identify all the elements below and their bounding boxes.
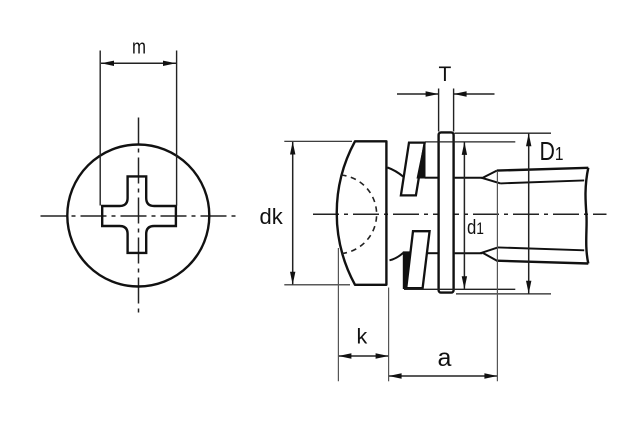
thread crest line top (497, 168, 589, 171)
dimension m line with arrows (101, 61, 176, 66)
dimension dk line with arrows (290, 142, 295, 285)
head outline circle (dk diameter) (67, 145, 209, 287)
shank line top (between spring washer and flat washer) (425, 177, 438, 179)
thread root line top (501, 180, 585, 183)
dimension k / a shared extension line (388, 288, 390, 382)
spring washer lower section (404, 231, 430, 288)
thread run-out V top (482, 171, 500, 184)
dimension T line with outside arrows (397, 91, 495, 96)
svg-text:T: T (439, 63, 452, 86)
recess depth dashed arc (341, 175, 377, 254)
under-head fillet top (388, 168, 404, 177)
dimension D1 line with arrows (526, 133, 531, 293)
dimension a line with arrows (389, 373, 498, 378)
svg-text:dk: dk (260, 204, 284, 229)
dimension k line with arrows (338, 353, 388, 358)
dimension k extension line left (337, 248, 339, 381)
centerline horizontal (left view) (41, 215, 237, 217)
spring washer upper section (401, 143, 425, 196)
svg-text:d1: d1 (467, 217, 484, 239)
dimension dk extension line top (284, 140, 352, 142)
pan head outline (337, 141, 387, 284)
centerline vertical (left view) (138, 118, 140, 315)
dimension a extension line right (496, 171, 498, 381)
break line at shank end (585, 168, 588, 264)
svg-text:k: k (357, 324, 368, 348)
thread crest line bottom (497, 261, 589, 264)
axis centerline (right view) (313, 213, 607, 215)
svg-text:a: a (438, 344, 452, 372)
shank line bottom (between spring washer and flat washer) (427, 252, 438, 254)
under-head fillet bottom (390, 253, 404, 260)
dimension D1 extension line top (455, 132, 552, 134)
dimension m extension line left (99, 51, 101, 206)
phillips recess cross (102, 176, 176, 253)
shank line bottom (washer to thread) (455, 252, 483, 254)
dimension d1 extension line bottom (404, 288, 515, 290)
dimension m extension line right (176, 51, 178, 206)
dimension T extension lines (439, 89, 454, 132)
dimension d1 extension line top (425, 141, 515, 143)
thread run-out V bottom (482, 247, 498, 261)
thread root line bottom (498, 247, 584, 250)
dimension D1 extension line bottom (456, 293, 551, 295)
shank line top (washer to thread) (455, 177, 483, 179)
svg-text:D1: D1 (540, 138, 564, 166)
dimension dk extension line bottom (284, 284, 350, 286)
dimension d1 line with arrows (462, 142, 467, 289)
svg-text:m: m (132, 37, 146, 59)
flat washer (439, 132, 454, 292)
